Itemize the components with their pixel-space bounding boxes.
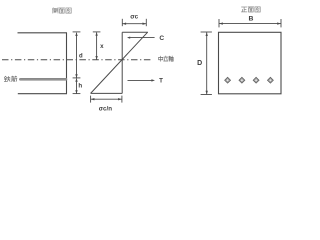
svg-text:σc/n: σc/n xyxy=(99,105,112,112)
neutral axis (dash-dot) xyxy=(2,59,153,61)
stress block diagonal xyxy=(91,32,148,93)
wall bottom edge xyxy=(18,93,67,95)
arrow C xyxy=(128,37,154,39)
dimension D : line xyxy=(201,32,212,95)
svg-text:σc: σc xyxy=(130,13,138,20)
wall right edge xyxy=(66,33,68,94)
stress block top edge xyxy=(122,31,148,33)
diamond highlights xyxy=(226,79,271,81)
svg-text:h: h xyxy=(78,83,82,90)
rebar diamond 1 xyxy=(225,77,274,83)
svg-text:C: C xyxy=(159,35,164,42)
dimension x : line xyxy=(93,32,101,60)
dimension sigma-c/n : line xyxy=(91,96,122,103)
wall top edge xyxy=(18,32,68,34)
arrow T xyxy=(128,79,154,81)
dimension B : line xyxy=(219,19,281,27)
title 正面図 xyxy=(241,7,260,12)
rebar diamond 2 xyxy=(239,77,245,83)
svg-text:B: B xyxy=(249,16,254,23)
rebar diamond 4 xyxy=(267,77,273,83)
dimension d : line xyxy=(73,32,81,78)
title 側面図 xyxy=(53,8,72,13)
label 中立軸 xyxy=(159,56,174,61)
rebar diamond 3 xyxy=(253,77,259,83)
dimension sigma-c : line xyxy=(122,19,146,26)
dimension h : line xyxy=(73,79,81,94)
svg-text:D: D xyxy=(197,60,202,67)
svg-text:x: x xyxy=(100,43,104,50)
svg-text:T: T xyxy=(159,78,163,85)
stress block vertical xyxy=(121,32,123,93)
wall front rectangle xyxy=(219,32,282,94)
stress block bottom edge xyxy=(91,92,123,94)
rebar bar xyxy=(20,78,66,81)
svg-text:d: d xyxy=(79,54,83,60)
label 鉄筋 xyxy=(4,76,17,82)
